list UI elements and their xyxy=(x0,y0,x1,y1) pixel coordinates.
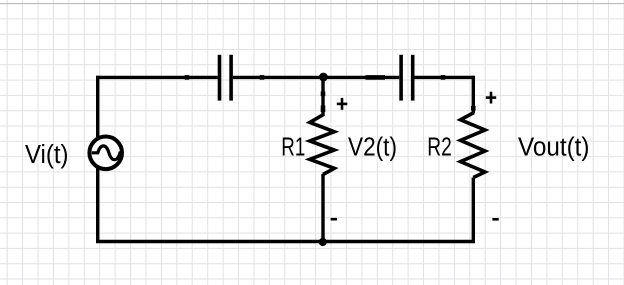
svg-text:R1: R1 xyxy=(281,131,305,161)
svg-text:V2(t): V2(t) xyxy=(348,131,397,161)
svg-text:Vout(t): Vout(t) xyxy=(518,132,590,162)
svg-text:R2: R2 xyxy=(427,131,452,161)
svg-text:Vi(t): Vi(t) xyxy=(25,139,69,169)
